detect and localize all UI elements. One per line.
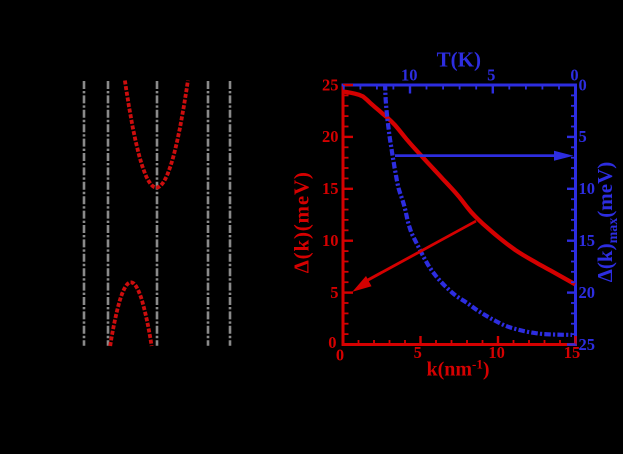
blue data curve Delta(k)max vs T (dash-dot) xyxy=(385,84,572,335)
gridline V4 xyxy=(207,81,210,346)
svg-text:25: 25 xyxy=(322,75,339,94)
svg-text:25: 25 xyxy=(579,335,596,354)
svg-text:T(K): T(K) xyxy=(437,48,481,72)
left axis tick labels (red) xyxy=(322,75,339,352)
gridline V5 xyxy=(229,81,232,346)
svg-text:0: 0 xyxy=(570,66,578,85)
svg-text:0: 0 xyxy=(579,75,587,94)
svg-text:15: 15 xyxy=(322,179,339,198)
lower band curve (red dotted parabola) xyxy=(110,282,151,346)
bottom x-axis (red) xyxy=(342,343,577,346)
svg-text:20: 20 xyxy=(322,127,339,146)
gridline V2 xyxy=(107,81,110,346)
axis tick marks xyxy=(343,85,576,345)
gridline V3 (center) xyxy=(156,81,159,346)
blue annotation arrow xyxy=(395,151,574,161)
svg-text:0: 0 xyxy=(336,345,344,364)
top axis tick labels (blue) xyxy=(401,66,579,85)
red data curve Delta(k) xyxy=(343,92,575,285)
svg-text:5: 5 xyxy=(579,127,587,146)
svg-text:10: 10 xyxy=(401,66,418,85)
gridline V1 xyxy=(83,81,86,346)
svg-text:5: 5 xyxy=(487,66,495,85)
svg-text:Δ(k)(meV): Δ(k)(meV) xyxy=(290,171,314,273)
svg-text:20: 20 xyxy=(579,283,596,302)
bottom axis tick labels (red) xyxy=(336,343,580,364)
svg-text:5: 5 xyxy=(330,283,338,302)
right axis tick labels (blue) xyxy=(579,75,596,354)
right axis ticks xyxy=(567,85,576,345)
top x-axis (blue) xyxy=(342,84,577,87)
top axis ticks xyxy=(344,85,576,94)
svg-text:5: 5 xyxy=(414,343,422,362)
svg-text:10: 10 xyxy=(488,343,505,362)
right y-axis (blue) xyxy=(574,84,577,346)
upper band curve (red dotted parabola) xyxy=(125,81,188,188)
bottom axis ticks xyxy=(343,336,576,345)
left y-axis (red) xyxy=(342,84,345,346)
svg-text:10: 10 xyxy=(322,231,339,250)
left axis ticks xyxy=(343,85,353,345)
red annotation arrow xyxy=(352,220,476,292)
